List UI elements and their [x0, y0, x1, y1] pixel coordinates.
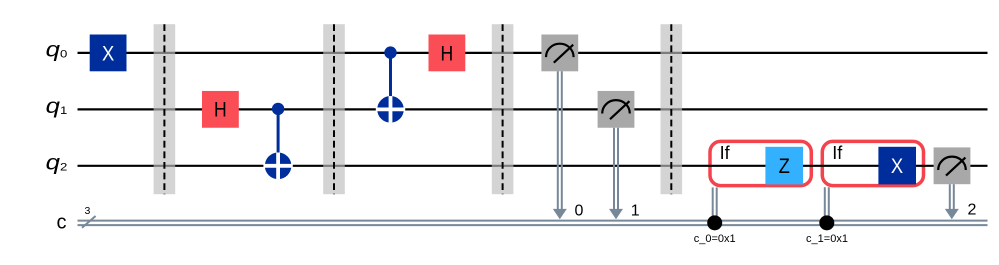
clbit index 1 [631, 203, 640, 220]
if 2 condition dot [819, 215, 834, 230]
svg-text:c: c [57, 212, 67, 234]
measure q1 classical drop [609, 128, 623, 220]
svg-text:3: 3 [84, 205, 90, 217]
if label 1 [720, 143, 731, 163]
classical wire c (double line) [78, 221, 988, 226]
wire q1 [78, 108, 988, 110]
CNOT control q0 [384, 46, 396, 96]
svg-text:H: H [441, 42, 454, 66]
classical bundle size 3 [84, 205, 90, 217]
label q0 [46, 38, 68, 62]
svg-text:If: If [832, 143, 843, 163]
measure q2 [934, 147, 971, 184]
if-else box 1 [710, 141, 811, 185]
gate H on q0 [429, 35, 466, 72]
if 1 condition drop [713, 187, 717, 221]
label q1 [46, 95, 68, 119]
svg-text:H: H [214, 98, 227, 122]
barrier 4 [661, 24, 683, 194]
svg-text:2: 2 [968, 202, 977, 219]
if label 2 [832, 143, 843, 163]
svg-text:1: 1 [631, 203, 640, 220]
measure q1 [598, 91, 635, 128]
CNOT control q1 [272, 103, 284, 153]
gate X on q0 [90, 35, 127, 72]
condition label c_0=0x1 [694, 233, 736, 245]
measure q0 [541, 35, 578, 72]
gate X on q2 (in if 2) [878, 147, 916, 185]
classical bundle slash [82, 216, 96, 228]
svg-text:Z: Z [779, 155, 790, 178]
barrier 2 [323, 24, 345, 194]
label q2 [46, 151, 68, 175]
wire q0 [78, 52, 988, 54]
svg-text:c_1=0x1: c_1=0x1 [806, 233, 848, 245]
if 1 condition dot [707, 215, 722, 230]
CNOT target q1 [376, 96, 405, 123]
gate Z on q2 (in if 1) [765, 147, 803, 185]
svg-text:0: 0 [575, 203, 584, 220]
if-else box 2 [822, 141, 923, 185]
if 2 condition drop [825, 187, 829, 221]
gate H on q1 [202, 91, 239, 128]
condition label c_1=0x1 [806, 233, 848, 245]
CNOT target q2 [263, 153, 292, 180]
svg-text:c_0=0x1: c_0=0x1 [694, 233, 736, 245]
svg-text:X: X [891, 155, 903, 178]
barrier 1 [154, 24, 176, 194]
svg-text:If: If [720, 143, 731, 163]
measure q2 classical drop [945, 184, 959, 219]
clbit index 2 [968, 202, 977, 219]
measure q0 classical drop [553, 71, 567, 219]
barrier 3 [492, 24, 514, 194]
label c [57, 212, 67, 234]
wire q2 [78, 165, 988, 167]
clbit index 0 [575, 203, 584, 220]
svg-text:X: X [102, 42, 114, 65]
